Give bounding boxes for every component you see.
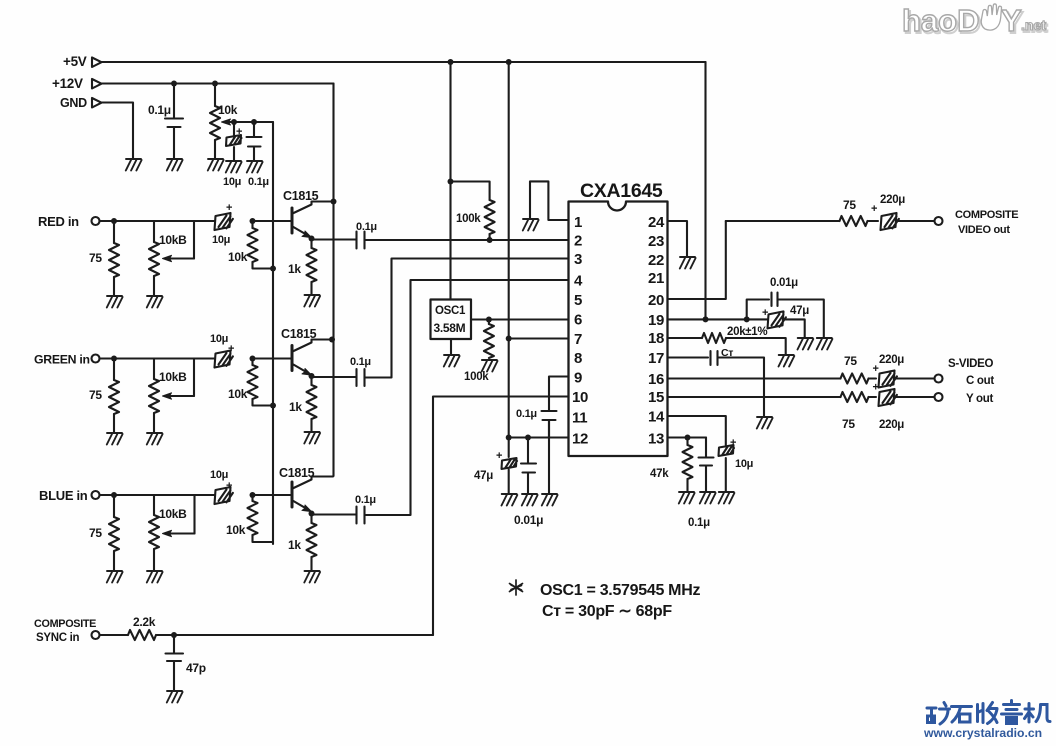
junction wiper / 10u (231, 119, 237, 125)
potentiometer 10kB GREEN label (159, 370, 187, 384)
resistor 10k RED bias (248, 221, 274, 269)
pin 3 number (574, 251, 582, 268)
wire GREEN input line (100, 357, 215, 359)
wire bias rail vertical (272, 122, 274, 544)
capacitor 220u C out label (879, 354, 904, 366)
wire +5V drop to OSC1 (449, 62, 451, 300)
capacitor 0.1u pin9 (542, 411, 557, 438)
ground 10kB RED (147, 296, 163, 308)
pin 5 number (574, 292, 582, 309)
resistor 75 RED termination (109, 221, 119, 295)
CJK char yin (1002, 701, 1022, 724)
junction 100k branch (448, 179, 454, 185)
junction BLUE input / 75 (111, 492, 117, 498)
ground pin9 branch (542, 494, 558, 506)
junction pin19 / +5V drop (703, 316, 709, 322)
capacitor 220u C out (electrolytic) (879, 371, 935, 388)
wire wiper to bias rail (232, 121, 273, 123)
junction BLUE emitter (309, 511, 315, 517)
node Y out terminal (935, 393, 943, 401)
node GND label (60, 96, 87, 110)
resistor 1k GREEN emitter (307, 376, 317, 431)
capacitor 0.1u GREEN coupling to pin3 (312, 369, 365, 386)
resistor 75 BLUE termination (109, 495, 119, 570)
ground 10u pin14 (719, 492, 735, 504)
wire +12V collector rail vertical (332, 84, 334, 477)
resistor 75 BLUE label (89, 526, 102, 540)
node C out terminal (935, 375, 943, 383)
wire pin 24 to ground (668, 221, 688, 256)
junction 100k / pin2 wire (487, 237, 493, 243)
node +5V label (63, 54, 87, 69)
capacitor 0.1u BLUE output label (355, 494, 376, 506)
ground 0.1u pin13 (700, 492, 716, 504)
wire OSC1 output to pin 6 (471, 318, 569, 320)
wire RED wiper arrow (163, 221, 195, 262)
resistor 10k GREEN bias label (228, 387, 248, 401)
capacitor 10u pin14 (electrolytic) (719, 445, 735, 491)
pin 19 number (648, 312, 664, 329)
node RED in terminal (92, 217, 100, 225)
capacitor 10u GREEN coupling plus sign (228, 343, 234, 355)
pin 10 number (572, 389, 588, 406)
capacitor 10u GREEN label (210, 333, 228, 345)
junction GREEN collector / +12V rail (329, 337, 335, 343)
capacitor 0.01u pin19 (747, 293, 824, 338)
potentiometer 10kB BLUE (149, 495, 159, 570)
pin 9 number (574, 370, 582, 387)
OSC1 crystal oscillator box (431, 300, 472, 340)
capacitor 0.1u supply bypass (165, 84, 183, 159)
wire BLUE to IC pin 4 (365, 280, 569, 515)
capacitor 0.1u supply bypass label (148, 103, 171, 117)
wire pin 10 to sync line (433, 397, 569, 636)
capacitor 0.1u bias label (248, 176, 269, 188)
wire pin 15 Y out line (668, 396, 841, 398)
resistor 2.2k sync (100, 630, 434, 640)
OSC1 3.58M label (434, 321, 466, 335)
node GND input terminal (92, 98, 102, 108)
resistor 75 RED label (89, 251, 102, 265)
capacitor 220u composite plus sign (871, 203, 877, 215)
note asterisk (510, 580, 523, 595)
wire BLUE wiper arrow (163, 495, 195, 537)
wire OSC1 to ground (450, 339, 452, 354)
resistor 10k RED bias label (228, 250, 248, 264)
junction RED collector / +12V rail (331, 199, 337, 205)
wire pin 13 stub (668, 436, 707, 438)
node COMPOSITE VIDEO out terminal (935, 217, 943, 225)
junction 10k GREEN / bias rail (270, 403, 276, 409)
pin 4 number (574, 273, 583, 290)
ground 10k trimmer (208, 159, 224, 171)
pin 15 number (648, 389, 664, 406)
capacitor 220u Y out (electrolytic) (879, 389, 935, 406)
wire +5V rail right drop to pin 19 (704, 62, 706, 319)
wire pin 14 to 10u (668, 416, 726, 445)
note CT range (542, 603, 672, 620)
pin 1 number (574, 214, 582, 231)
resistor 75 Y out (841, 392, 877, 402)
transistor Q1 C1815 RED (292, 202, 333, 238)
capacitor 220u composite label (880, 194, 905, 206)
resistor 75 GREEN label (89, 388, 102, 402)
ground 1k GREEN (304, 432, 320, 444)
junction pin 13 (685, 435, 691, 441)
resistor 1k GREEN label (289, 400, 302, 414)
pin 21 number (648, 270, 664, 287)
pin 24 number (648, 214, 665, 231)
junction pin 7 / +5V drop (506, 336, 512, 342)
resistor 75 C out label (844, 354, 857, 368)
OSC1 label (435, 305, 466, 317)
resistor 2.2k label (133, 615, 156, 629)
transistor Q1 C1815 RED label (283, 189, 319, 203)
capacitor CT label (721, 347, 733, 359)
resistor 20k 1% label (727, 326, 767, 338)
resistor 20k 1% pin 18 (668, 333, 786, 354)
wire trimmer wiper arrow (222, 119, 233, 125)
node Y out label (966, 393, 994, 405)
wire RED input line (100, 220, 215, 222)
potentiometer 10kB BLUE label (159, 507, 187, 521)
capacitor 47u pin19 label (790, 305, 809, 317)
CJK char shi (952, 707, 972, 723)
junction BLUE base node (250, 492, 256, 498)
wire pin9 branch to ground (548, 421, 550, 494)
pin 13 number (648, 431, 664, 448)
wire +5V rail (102, 61, 706, 63)
ground 75 RED (107, 296, 123, 308)
ground 10kB GREEN (147, 433, 163, 445)
node COMPOSITE VIDEO out label (955, 209, 1018, 236)
wire pin 12 line (509, 436, 569, 438)
junction 10k RED / bias rail (270, 266, 276, 272)
resistor 75 composite label (843, 198, 856, 212)
capacitor 0.1u GREEN output label (350, 356, 371, 368)
CJK char ji (1025, 704, 1051, 723)
node SYNC in terminal (92, 631, 100, 639)
capacitor 0.1u pin13 label (688, 517, 710, 529)
IC U1 CXA1645 title (580, 180, 663, 202)
wire pin 16 C out line (668, 377, 841, 379)
ground 75 GREEN (107, 433, 123, 445)
ground pin 1 (523, 219, 539, 231)
node S-VIDEO label (948, 358, 994, 370)
ground 47k pin13 (679, 492, 695, 504)
potentiometer 10kB GREEN (149, 359, 159, 433)
capacitor 0.1u pin9 label (516, 408, 537, 420)
resistor 1k BLUE emitter (307, 514, 317, 571)
junction sync / 47p (171, 632, 177, 638)
capacitor 47u pin19 plus sign (762, 307, 768, 319)
resistor 75 composite (726, 216, 878, 226)
junction +12V / 10k trimmer (212, 81, 218, 87)
junction wiper / 0.1u (251, 119, 257, 125)
ground 100k lower (482, 360, 498, 372)
capacitor 0.1u bias (247, 122, 262, 160)
capacitor 10u RED label (212, 234, 230, 246)
capacitor 10u RED coupling plus sign (226, 202, 232, 214)
wire +5V drop to pins 7 and 12 (508, 62, 510, 438)
capacitor 220u C out plus sign (873, 363, 879, 375)
junction pin19 / 0.01u branch (744, 316, 750, 322)
junction GREEN emitter (309, 373, 315, 379)
capacitor 10u bias (electrolytic) (226, 122, 242, 160)
junction pin12 / 47u (506, 435, 512, 441)
pin 16 number (648, 371, 664, 388)
IC U1 CXA1645 body (569, 202, 668, 457)
resistor 47k label (650, 468, 669, 480)
capacitor 0.1u pin13 (699, 438, 714, 492)
node BLUE in terminal (92, 491, 100, 499)
capacitor 47p label (186, 661, 206, 675)
pin 20 number (648, 292, 664, 309)
wire pin 20 to composite line (668, 221, 726, 299)
junction pin12 / 0.01u (525, 435, 531, 441)
node GREEN in terminal (92, 355, 100, 363)
wire +12V rail (102, 82, 334, 84)
capacitor 0.01u pin19 label (770, 277, 798, 289)
wire pin 9 to 0.1u (549, 377, 569, 411)
resistor 10k bias trimmer label (218, 103, 238, 117)
ground CT line (757, 417, 773, 429)
resistor 10k BLUE bias (248, 495, 274, 542)
ground 1k BLUE (304, 571, 320, 583)
pin 11 number (572, 410, 587, 427)
capacitor 47u pin12 label (474, 470, 493, 482)
pin 18 number (648, 330, 664, 347)
resistor 10k GREEN bias (248, 359, 274, 406)
pin 17 number (648, 350, 664, 367)
capacitor 10u pin14 plus sign (730, 437, 736, 449)
junction RED input / 75 (111, 218, 117, 224)
ground 0.01u pin12 (522, 494, 538, 506)
capacitor 0.1u BLUE coupling to pin4 (312, 507, 365, 524)
capacitor 220u composite (electrolytic) (881, 213, 935, 230)
ground 75 BLUE (107, 571, 123, 583)
capacitor 220u Y out label (879, 419, 904, 431)
capacitor 10u GREEN coupling (electrolytic) (215, 351, 233, 368)
node BLUE in label (39, 488, 88, 503)
wire GREEN to IC pin 3 (365, 259, 569, 378)
junction pin6 / 100k lower (486, 317, 492, 323)
wire GND input to ground (102, 103, 134, 159)
capacitor 10u BLUE coupling plus sign (226, 480, 232, 492)
resistor 100k lower (484, 320, 494, 359)
node +12V input terminal (92, 79, 102, 89)
resistor 1k BLUE label (288, 538, 301, 552)
capacitor 0.1u RED coupling to pin2 (312, 232, 365, 249)
capacitor CT pin 17 (668, 351, 765, 416)
pin 8 number (574, 350, 582, 367)
wire GREEN wiper arrow (163, 359, 195, 400)
capacitor 0.01u pin12 (521, 438, 536, 494)
svg-text:www.crystalradio.cn: www.crystalradio.cn (923, 726, 1042, 740)
ground 0.1u bias (247, 161, 263, 173)
node RED in label (38, 214, 79, 229)
capacitor 10u BLUE coupling (electrolytic) (215, 487, 233, 504)
capacitor 47u pin12 plus sign (496, 450, 502, 462)
ground 1k RED (304, 295, 320, 307)
pin 23 number (648, 233, 664, 250)
ground 10u bias (226, 161, 242, 173)
capacitor 220u Y out plus sign (873, 382, 879, 394)
resistor 1k RED label (288, 262, 301, 276)
node C out label (966, 375, 994, 387)
capacitor 47u pin19 (electrolytic) (768, 311, 805, 337)
node +5V input terminal (92, 58, 102, 68)
resistor 75 Y out label (842, 417, 855, 431)
node GREEN in label (34, 353, 90, 367)
junction +5V drop / top rail (448, 59, 454, 65)
capacitor 0.01u pin12 label (514, 513, 543, 527)
pin 7 number (574, 331, 582, 348)
capacitor 10u pin14 label (735, 458, 753, 470)
pin 22 number (648, 252, 664, 269)
ground OSC1 (444, 355, 460, 367)
ground 0.01u pin19 (817, 338, 833, 350)
wire BLUE input line (100, 494, 215, 496)
junction GREEN input / 75 (111, 356, 117, 362)
pin 6 number (574, 312, 582, 329)
node COMPOSITE SYNC in label (34, 618, 96, 644)
ground GND input (126, 159, 142, 171)
CJK char shou (978, 703, 998, 724)
ground 47u pin19 (798, 338, 814, 350)
ground 47p (167, 691, 183, 703)
resistor 10k bias trimmer (210, 84, 220, 159)
wire GREEN base (253, 357, 292, 359)
wire pin 19 line (668, 318, 768, 320)
resistor 47k pin13 (683, 438, 693, 492)
resistor 100k upper label (456, 213, 481, 225)
note OSC1 frequency (540, 582, 700, 599)
ground 10kB BLUE (147, 571, 163, 583)
resistor 10k BLUE bias label (226, 523, 246, 537)
resistor 100k upper (451, 182, 495, 241)
wire BLUE base (253, 494, 292, 496)
pin 12 number (572, 431, 588, 448)
junction +5V second drop / top rail (506, 59, 512, 65)
resistor 75 C out (841, 374, 877, 384)
capacitor 10u bias plus sign (236, 126, 242, 138)
junction RED base node (250, 218, 256, 224)
resistor 1k RED emitter (307, 239, 317, 295)
node +12V label (52, 76, 83, 91)
capacitor 0.1u RED output label (356, 221, 377, 233)
pin 14 number (648, 409, 665, 426)
resistor 75 GREEN termination (109, 359, 119, 433)
transistor Q3 C1815 BLUE (292, 477, 333, 512)
capacitor 10u RED coupling (electrolytic) (215, 213, 233, 230)
junction +12V / 0.1u (171, 81, 177, 87)
wire pin 7 stub (509, 337, 569, 339)
wire pin 1 hook to ground (530, 181, 569, 220)
wire RED to IC pin 2 (365, 239, 569, 241)
capacitor 47u pin12 (electrolytic) (502, 438, 518, 494)
ground 20k pin18 (779, 355, 795, 367)
pin 2 number (574, 233, 582, 250)
potentiometer 10kB RED label (159, 233, 187, 247)
capacitor 10u BLUE label (210, 469, 228, 481)
capacitor 10u bias label (223, 176, 241, 188)
capacitor 47p sync (166, 635, 184, 690)
ground 0.1u bypass (167, 159, 183, 171)
resistor 100k lower label (464, 371, 489, 383)
ground 47u pin12 (502, 494, 518, 506)
transistor Q3 C1815 BLUE label (279, 466, 315, 480)
transistor Q2 C1815 GREEN (292, 340, 332, 376)
transistor Q2 C1815 GREEN label (281, 327, 317, 341)
junction GREEN base node (250, 356, 256, 362)
potentiometer 10kB RED (149, 221, 159, 295)
wire RED base (253, 220, 292, 222)
CJK char kuang (927, 703, 950, 725)
junction RED emitter (309, 236, 315, 242)
ground pin 24 (680, 257, 696, 269)
